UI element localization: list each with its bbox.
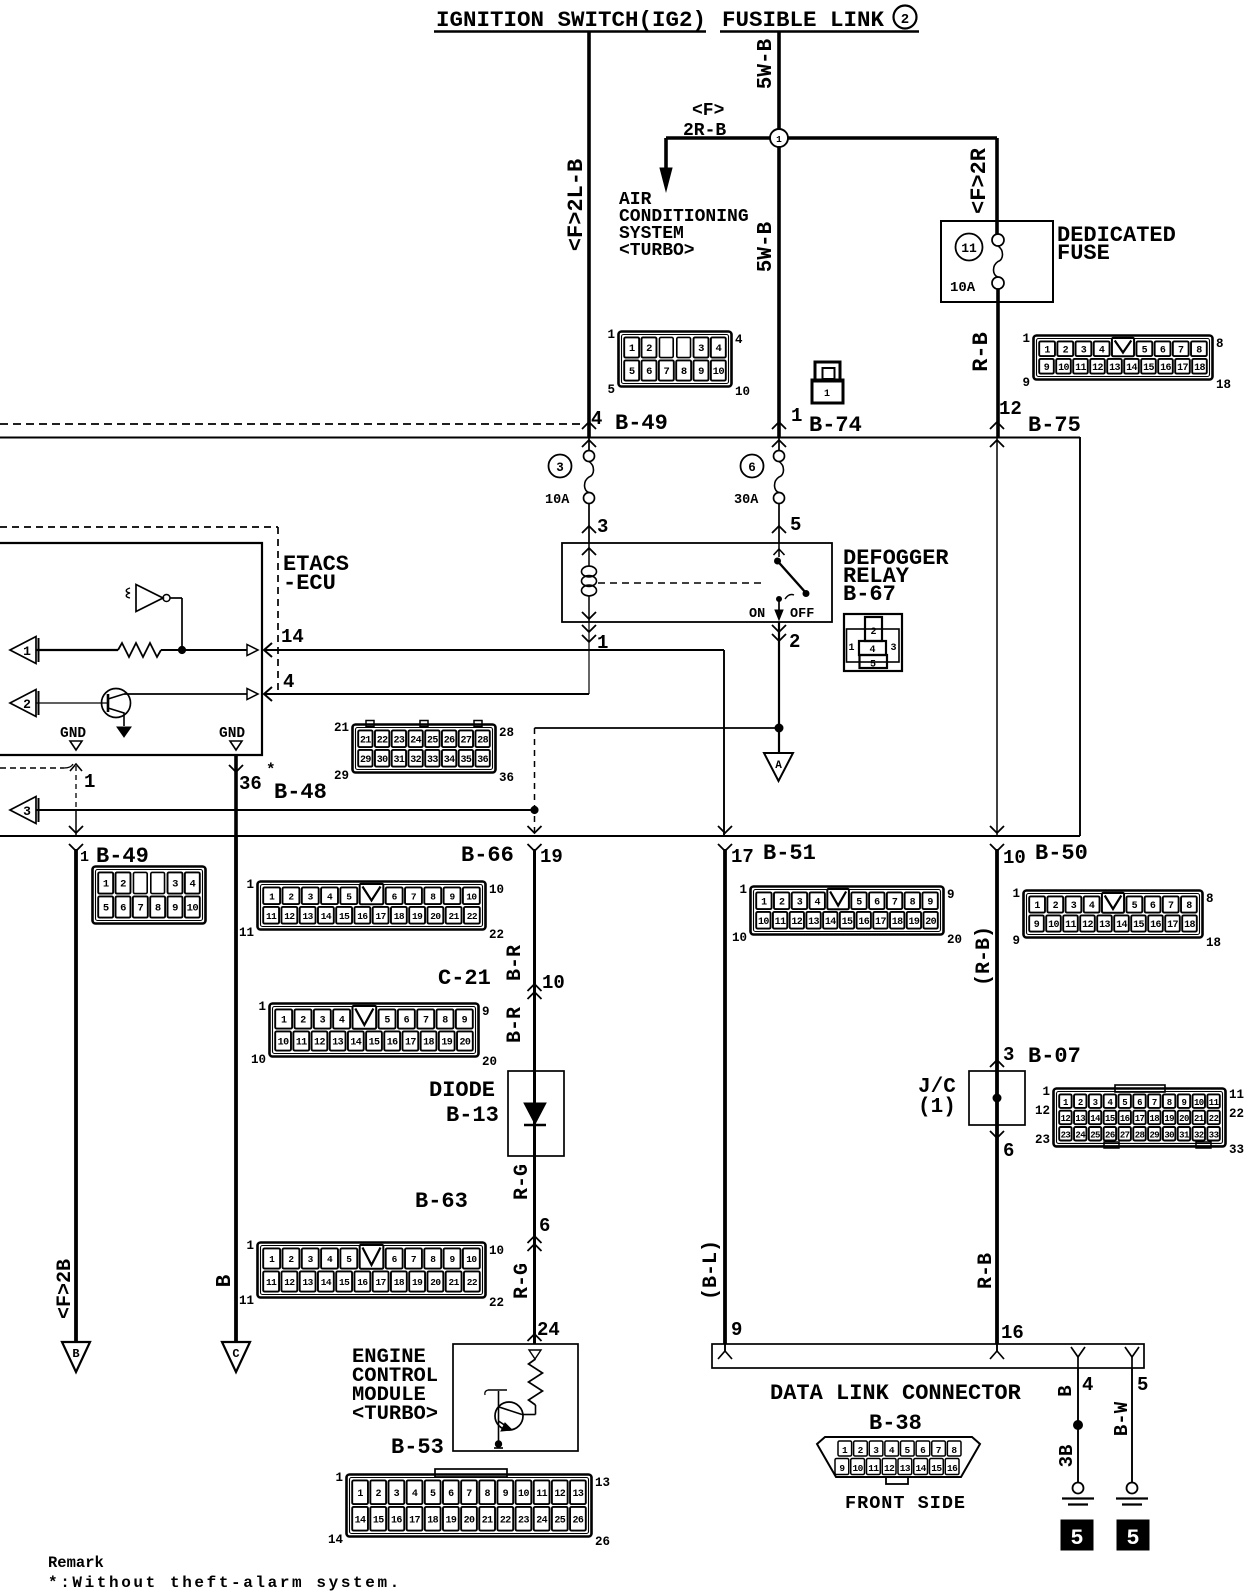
svg-text:<TURBO>: <TURBO> <box>352 1403 438 1426</box>
svg-text:6: 6 <box>1150 901 1156 912</box>
svg-text:5: 5 <box>346 891 352 902</box>
svg-text:B-R: B-R <box>504 1007 527 1043</box>
svg-text:10: 10 <box>518 1489 529 1500</box>
svg-text:18: 18 <box>427 1515 438 1526</box>
node B-74 pin1 junction <box>772 422 786 429</box>
svg-text:20: 20 <box>430 911 441 922</box>
svg-text:4: 4 <box>815 897 821 908</box>
main bus line upper <box>0 436 1080 438</box>
relay switch contact <box>778 543 780 557</box>
svg-text:11: 11 <box>239 1294 254 1308</box>
svg-text:3: 3 <box>308 1254 314 1265</box>
svg-text:18: 18 <box>1216 378 1231 392</box>
svg-text:14: 14 <box>916 1463 927 1474</box>
node B-51 pin17 crossing <box>718 826 732 833</box>
svg-text:9: 9 <box>927 897 933 908</box>
svg-text:2: 2 <box>1053 901 1059 912</box>
svg-text:A: A <box>775 760 782 772</box>
svg-text:13: 13 <box>1109 363 1120 374</box>
svg-text:22: 22 <box>1209 1114 1219 1124</box>
svg-text:12: 12 <box>1061 1114 1071 1124</box>
svg-text:<F>2R: <F>2R <box>967 147 992 214</box>
svg-text:2: 2 <box>858 1445 864 1456</box>
svg-text:11: 11 <box>1065 920 1076 931</box>
svg-text:17: 17 <box>376 1277 387 1288</box>
svg-text:16: 16 <box>947 1463 958 1474</box>
svg-text:12: 12 <box>1035 1104 1050 1118</box>
svg-text:3: 3 <box>890 643 896 654</box>
svg-text:1: 1 <box>80 849 89 866</box>
svg-text:8: 8 <box>1216 337 1224 351</box>
svg-text:13: 13 <box>1075 1114 1085 1124</box>
connector B-67 icon <box>844 614 902 671</box>
resistor R2 in ECM <box>529 1350 541 1359</box>
svg-text:31: 31 <box>1179 1130 1190 1140</box>
svg-text:18: 18 <box>423 1038 434 1049</box>
svg-text:9: 9 <box>450 1254 456 1265</box>
svg-text:16: 16 <box>357 911 368 922</box>
svg-text:2: 2 <box>120 879 126 891</box>
svg-text:13: 13 <box>595 1476 610 1490</box>
svg-text:19: 19 <box>540 846 563 868</box>
svg-text:2: 2 <box>300 1016 306 1027</box>
wire B-50 pin10 down <box>995 849 999 1344</box>
svg-text:1: 1 <box>1034 901 1040 912</box>
svg-text:36: 36 <box>239 773 262 795</box>
svg-text:30A: 30A <box>734 493 759 508</box>
svg-text:10: 10 <box>466 1254 477 1265</box>
svg-text:3: 3 <box>698 343 704 355</box>
connector B-38 OBD <box>817 1437 980 1477</box>
svg-text:4: 4 <box>327 1254 333 1265</box>
svg-text:1: 1 <box>103 879 109 891</box>
svg-text:10: 10 <box>1003 847 1026 869</box>
svg-text:3: 3 <box>556 461 564 475</box>
svg-text:(1): (1) <box>918 1096 956 1119</box>
data link connector box <box>712 1344 1144 1368</box>
svg-text:FUSE: FUSE <box>1057 241 1110 266</box>
svg-text:12: 12 <box>884 1463 895 1474</box>
node dot pin3/B-66 <box>531 806 538 813</box>
svg-text:B-74: B-74 <box>809 413 862 438</box>
node B-75 pin12 junction <box>990 422 1004 429</box>
svg-text:11: 11 <box>266 911 277 922</box>
svg-text:2R-B: 2R-B <box>683 121 726 141</box>
svg-text:10: 10 <box>713 366 725 378</box>
svg-text:6: 6 <box>392 1254 398 1265</box>
svg-text:2: 2 <box>789 631 800 653</box>
svg-text:B-66: B-66 <box>461 843 514 868</box>
svg-text:B: B <box>214 1274 237 1287</box>
svg-text:FUSIBLE LINK: FUSIBLE LINK <box>722 7 885 33</box>
svg-text:DIODE: DIODE <box>429 1078 495 1103</box>
svg-text:11: 11 <box>266 1277 277 1288</box>
diode symbol <box>524 1103 546 1124</box>
dedicated fuse box <box>941 221 1053 302</box>
svg-text:21: 21 <box>334 721 349 735</box>
svg-text:<TURBO>: <TURBO> <box>619 241 695 261</box>
pin arrow out 14 <box>247 645 258 656</box>
ETACS dashed outline <box>0 526 278 528</box>
svg-text:5: 5 <box>904 1445 910 1456</box>
svg-text:23: 23 <box>518 1515 529 1526</box>
svg-text:29: 29 <box>334 769 349 783</box>
wire B-66 to C-21 <box>533 849 536 1344</box>
svg-text:19: 19 <box>412 1277 423 1288</box>
connector B-75 <box>1034 336 1213 380</box>
svg-text:8: 8 <box>430 891 436 902</box>
svg-text:20: 20 <box>1179 1114 1189 1124</box>
svg-text:25: 25 <box>554 1515 565 1526</box>
svg-text:18: 18 <box>892 917 903 928</box>
transistor Q1 <box>102 689 131 718</box>
svg-text:7: 7 <box>1152 1098 1157 1108</box>
svg-text:26: 26 <box>573 1515 584 1526</box>
fuse number 11 circled <box>956 234 983 261</box>
wire B-50 pin10 thin <box>996 437 998 836</box>
svg-text:9: 9 <box>450 891 456 902</box>
svg-text:4: 4 <box>735 333 743 347</box>
node dot 3B <box>1074 1421 1083 1430</box>
svg-text:21: 21 <box>449 911 460 922</box>
svg-text:17: 17 <box>1177 363 1188 374</box>
svg-text:5: 5 <box>1122 1098 1127 1108</box>
wire ECU pin1 row <box>36 649 118 651</box>
node B-66 pin19 crossing <box>528 826 542 833</box>
svg-text:11: 11 <box>536 1489 547 1500</box>
svg-text:4: 4 <box>1089 901 1095 912</box>
svg-text:14: 14 <box>321 1277 332 1288</box>
svg-text:1: 1 <box>246 878 254 892</box>
wire A branch horizontal <box>535 727 780 729</box>
svg-text:18: 18 <box>1184 920 1195 931</box>
svg-text:21: 21 <box>360 735 371 746</box>
svg-text:14: 14 <box>1126 363 1137 374</box>
svg-text:7: 7 <box>137 903 143 915</box>
svg-text:1: 1 <box>84 771 95 793</box>
svg-text:3: 3 <box>23 804 31 819</box>
svg-text:6: 6 <box>120 903 126 915</box>
svg-text:6: 6 <box>392 891 398 902</box>
svg-text:8: 8 <box>430 1254 436 1265</box>
svg-text:10: 10 <box>489 883 504 897</box>
ground symbol left <box>1073 1483 1084 1494</box>
svg-text:(B-L): (B-L) <box>700 1240 723 1300</box>
connector arrow C <box>222 1342 250 1372</box>
relay pin2 exit <box>772 625 786 632</box>
pin 6 B-63 entry <box>528 1236 542 1243</box>
svg-text:16: 16 <box>387 1038 398 1049</box>
svg-text:5: 5 <box>607 383 615 397</box>
svg-text:18: 18 <box>394 1277 405 1288</box>
resistor R1 <box>118 643 161 657</box>
relay coil <box>582 548 596 555</box>
node junction dot pin2/A <box>775 724 783 732</box>
svg-text:10: 10 <box>1194 1098 1204 1108</box>
junction block J/C box <box>969 1071 1025 1125</box>
svg-text:1: 1 <box>848 643 854 654</box>
svg-text:9: 9 <box>1012 934 1020 948</box>
svg-text:1: 1 <box>824 389 830 400</box>
svg-text:27: 27 <box>460 735 471 746</box>
svg-text:7: 7 <box>936 1445 942 1456</box>
svg-text:14: 14 <box>355 1515 366 1526</box>
svg-text:16: 16 <box>391 1515 402 1526</box>
svg-text:8: 8 <box>681 366 687 378</box>
DLC pin 9 arrow <box>724 1344 726 1351</box>
transistor Q2 in ECM <box>495 1402 523 1430</box>
connector B-07 <box>1115 1085 1165 1092</box>
wire horizontal fusible link branch <box>666 136 997 140</box>
node B-49 pin4 junction <box>582 422 596 429</box>
connector B-49 lower <box>93 867 206 924</box>
svg-text:36: 36 <box>499 771 514 785</box>
svg-text:13: 13 <box>808 917 819 928</box>
svg-text:1: 1 <box>842 1445 848 1456</box>
svg-text:ON: ON <box>749 607 765 622</box>
svg-text:24: 24 <box>410 735 421 746</box>
svg-text:23: 23 <box>393 735 404 746</box>
svg-text:3: 3 <box>172 879 178 891</box>
svg-text:4: 4 <box>327 891 333 902</box>
node dot J/C <box>993 1094 1001 1102</box>
input pin triangle 1 <box>10 637 36 664</box>
pin 4 entry <box>264 687 272 701</box>
svg-text:1: 1 <box>357 1489 363 1500</box>
wire relay pin1 to ECU pin4 link <box>588 622 590 694</box>
svg-text:2: 2 <box>1063 345 1069 356</box>
svg-text:9: 9 <box>172 903 178 915</box>
svg-text:8: 8 <box>1206 892 1214 906</box>
svg-text:9: 9 <box>503 1489 509 1500</box>
svg-text:15: 15 <box>339 911 350 922</box>
svg-text:R-G: R-G <box>511 1164 534 1200</box>
svg-text:1: 1 <box>246 1239 254 1253</box>
svg-text:28: 28 <box>499 726 514 740</box>
svg-text:22: 22 <box>489 928 504 942</box>
svg-text:8: 8 <box>484 1489 490 1500</box>
svg-text:5: 5 <box>856 897 862 908</box>
svg-text:13: 13 <box>332 1038 343 1049</box>
svg-text:3: 3 <box>308 891 314 902</box>
svg-text:12: 12 <box>284 911 295 922</box>
svg-text:*: * <box>266 761 276 779</box>
svg-text:14: 14 <box>1116 920 1127 931</box>
svg-text:15: 15 <box>369 1038 380 1049</box>
svg-text:6: 6 <box>1137 1098 1142 1108</box>
wire branch to A/C with arrow <box>664 138 668 172</box>
svg-text:6: 6 <box>1160 345 1166 356</box>
svg-text:2: 2 <box>779 897 785 908</box>
svg-text:20: 20 <box>460 1038 471 1049</box>
svg-text:10: 10 <box>853 1463 864 1474</box>
svg-text:2: 2 <box>23 697 31 712</box>
svg-text:B-49: B-49 <box>615 411 668 436</box>
wire GND36 down thick <box>234 755 238 836</box>
svg-text:33: 33 <box>427 755 438 766</box>
svg-text:20: 20 <box>947 933 962 947</box>
svg-text:5: 5 <box>103 903 109 915</box>
svg-text:13: 13 <box>1099 920 1110 931</box>
svg-text:B-07: B-07 <box>1028 1044 1081 1069</box>
svg-text:16: 16 <box>1150 920 1161 931</box>
svg-text:2: 2 <box>1078 1098 1083 1108</box>
svg-text:19: 19 <box>1164 1114 1174 1124</box>
svg-text:10: 10 <box>542 972 565 994</box>
svg-text:6: 6 <box>404 1016 410 1027</box>
connector arrow B <box>62 1342 90 1372</box>
svg-text:3: 3 <box>1003 1044 1014 1066</box>
svg-text:3: 3 <box>320 1016 326 1027</box>
svg-text:Remark: Remark <box>48 1554 104 1572</box>
svg-text:16: 16 <box>1120 1114 1130 1124</box>
svg-text:12: 12 <box>554 1489 565 1500</box>
svg-text:26: 26 <box>1105 1130 1115 1140</box>
svg-text:4: 4 <box>1082 1374 1093 1396</box>
svg-text:9: 9 <box>482 1005 490 1019</box>
svg-text:2: 2 <box>646 343 652 355</box>
svg-text:10: 10 <box>758 917 769 928</box>
svg-text:1: 1 <box>1044 345 1050 356</box>
svg-text:B-51: B-51 <box>763 841 816 866</box>
svg-text:30: 30 <box>1164 1130 1174 1140</box>
svg-text:5: 5 <box>1137 1374 1148 1396</box>
connector B-74 icon <box>815 362 840 381</box>
svg-text:16: 16 <box>1160 363 1171 374</box>
svg-text:23: 23 <box>1035 1133 1050 1147</box>
svg-text:15: 15 <box>1133 920 1144 931</box>
svg-text:15: 15 <box>842 917 853 928</box>
DLC pin 5 arrow <box>1125 1347 1139 1357</box>
svg-text:DATA LINK CONNECTOR: DATA LINK CONNECTOR <box>770 1381 1022 1406</box>
svg-text:1: 1 <box>1012 887 1020 901</box>
svg-text:19: 19 <box>441 1038 452 1049</box>
svg-text:3: 3 <box>597 516 608 538</box>
dashed stub pin1 GND <box>0 767 64 769</box>
svg-text:*:Without theft-alarm system.: *:Without theft-alarm system. <box>48 1574 402 1592</box>
DLC pin 4 arrow <box>1071 1347 1085 1357</box>
svg-text:6: 6 <box>646 366 652 378</box>
svg-text:8: 8 <box>951 1445 957 1456</box>
connector B-66 <box>258 882 486 930</box>
svg-text:1: 1 <box>269 1254 275 1265</box>
svg-text:B-67: B-67 <box>843 582 896 607</box>
defogger relay box <box>562 543 832 622</box>
svg-text:11: 11 <box>296 1038 307 1049</box>
svg-text:C-21: C-21 <box>438 966 491 991</box>
svg-text:2: 2 <box>870 627 876 638</box>
svg-text:11: 11 <box>961 241 977 256</box>
svg-text:<F>2L-B: <F>2L-B <box>564 159 589 251</box>
svg-text:6: 6 <box>1003 1140 1014 1162</box>
svg-text:12: 12 <box>999 398 1022 420</box>
svg-text:4: 4 <box>1099 345 1105 356</box>
svg-text:10: 10 <box>1048 920 1059 931</box>
svg-text:1: 1 <box>23 644 31 659</box>
wire ECU pin2 base <box>36 702 108 704</box>
svg-text:5: 5 <box>430 1489 436 1500</box>
fuse 3 circled <box>549 455 572 478</box>
svg-text:3: 3 <box>394 1489 400 1500</box>
engine control module box <box>453 1344 578 1451</box>
svg-text:8: 8 <box>1167 1098 1172 1108</box>
inverter gate U1 <box>136 585 163 612</box>
fuse F3 10A symbol <box>588 438 590 451</box>
svg-text:18: 18 <box>1150 1114 1160 1124</box>
svg-text:5W-B: 5W-B <box>755 221 778 272</box>
relay coil-contact dashed link <box>598 582 764 584</box>
DLC pin 16 arrow <box>996 1344 998 1351</box>
wire (F)2B <box>74 849 78 1341</box>
wire B-51 pin17 down <box>723 849 727 1344</box>
svg-text:17: 17 <box>875 917 886 928</box>
svg-text:2: 2 <box>901 12 909 28</box>
svg-text:5: 5 <box>384 1016 390 1027</box>
svg-text:7: 7 <box>411 891 417 902</box>
svg-text:18: 18 <box>1206 936 1221 950</box>
svg-text:10: 10 <box>1058 363 1069 374</box>
ground symbol right <box>1127 1483 1138 1494</box>
dashed firewall line <box>0 423 581 425</box>
svg-text:1: 1 <box>281 1016 287 1027</box>
svg-text:10: 10 <box>735 385 750 399</box>
svg-text:OFF: OFF <box>790 607 814 622</box>
svg-text:20: 20 <box>430 1277 441 1288</box>
svg-text:26: 26 <box>444 735 455 746</box>
svg-text:28: 28 <box>1135 1130 1145 1140</box>
svg-text:2: 2 <box>288 1254 294 1265</box>
fuse F11 10A symbol <box>992 234 1004 246</box>
svg-text:11: 11 <box>1075 363 1086 374</box>
svg-text:C: C <box>232 1347 239 1361</box>
svg-text:21: 21 <box>482 1515 493 1526</box>
svg-text:22: 22 <box>377 735 388 746</box>
svg-text:10: 10 <box>251 1053 266 1067</box>
svg-text:<F>: <F> <box>692 101 724 121</box>
svg-text:17: 17 <box>405 1038 416 1049</box>
input pin triangle 2 <box>10 690 36 717</box>
svg-text:1: 1 <box>761 897 767 908</box>
svg-text:11: 11 <box>1229 1088 1244 1102</box>
wire fusible link feed <box>777 32 781 438</box>
svg-text:(R-B): (R-B) <box>973 926 996 986</box>
input pin triangle 3 <box>10 797 36 824</box>
svg-text:6: 6 <box>448 1489 454 1500</box>
svg-text:B-R: B-R <box>504 945 527 981</box>
svg-text:35: 35 <box>460 755 471 766</box>
node B-50 pin10 crossing <box>990 826 1004 833</box>
svg-text:24: 24 <box>537 1319 560 1341</box>
svg-text:16: 16 <box>357 1277 368 1288</box>
svg-text:9: 9 <box>731 1319 742 1341</box>
svg-text:7: 7 <box>411 1254 417 1265</box>
svg-text:8: 8 <box>910 897 916 908</box>
svg-text:16: 16 <box>858 917 869 928</box>
svg-text:6: 6 <box>748 461 756 475</box>
svg-text:33: 33 <box>1209 1130 1219 1140</box>
svg-text:11: 11 <box>239 926 254 940</box>
svg-text:B-75: B-75 <box>1028 413 1081 438</box>
page ref 5 left <box>1061 1520 1093 1550</box>
svg-text:7: 7 <box>892 897 898 908</box>
svg-text:17: 17 <box>1135 1114 1145 1124</box>
svg-text:1: 1 <box>269 891 275 902</box>
svg-text:7: 7 <box>1178 345 1184 356</box>
svg-text:B-38: B-38 <box>869 1411 922 1436</box>
svg-text:1: 1 <box>776 134 782 145</box>
svg-text:5: 5 <box>1132 901 1138 912</box>
svg-text:22: 22 <box>1229 1107 1244 1121</box>
